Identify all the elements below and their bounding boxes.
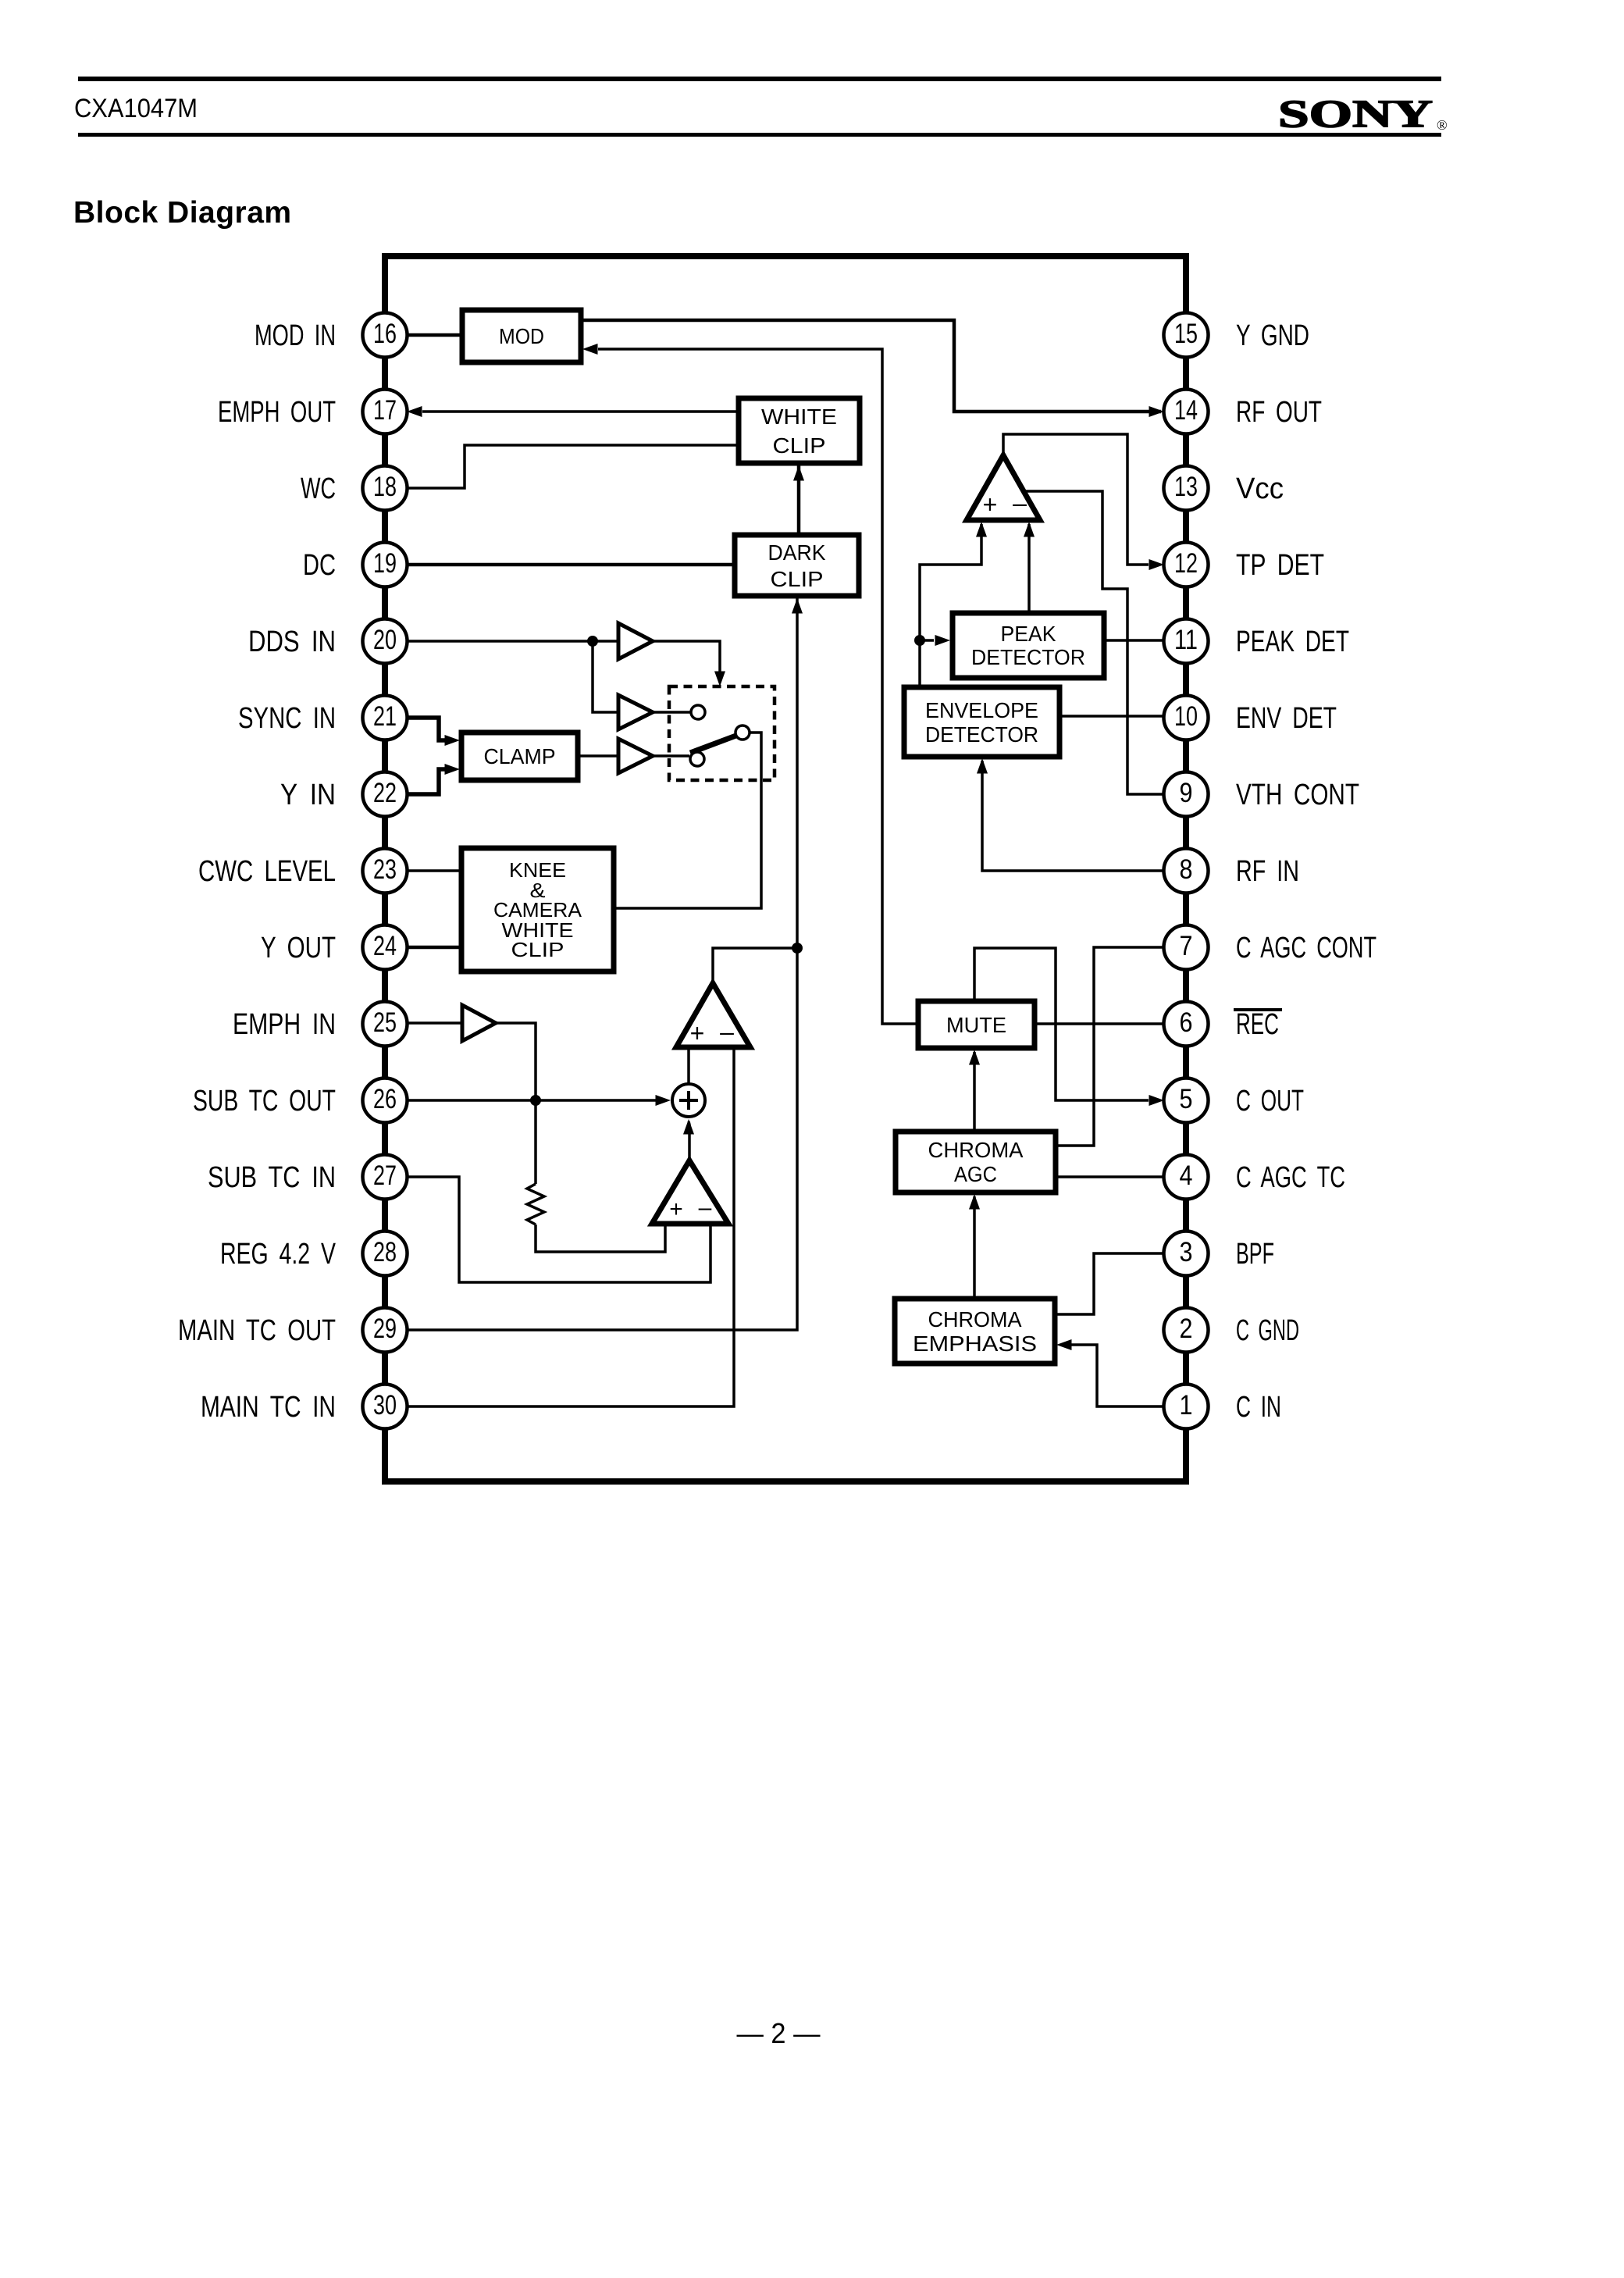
pin 22 Y IN	[280, 772, 408, 817]
svg-text:+: +	[669, 1196, 683, 1222]
block MUTE	[918, 1001, 1035, 1048]
buffer A3	[618, 739, 653, 773]
wire pin18 WC to WHITE CLIP	[405, 445, 739, 488]
svg-text:10: 10	[1174, 701, 1198, 732]
svg-text:DARK: DARK	[768, 540, 826, 565]
pin 13 Vcc	[1164, 466, 1284, 511]
op-amp U2	[652, 1160, 728, 1224]
pin 11 PEAK DET	[1164, 619, 1350, 664]
svg-text:CWC LEVEL: CWC LEVEL	[198, 855, 336, 888]
wire pin27 SUB TC IN to op-amp U2 minus input	[405, 1177, 710, 1282]
wire ENVELOPE DETECTOR to pin10 ENV DET	[1060, 715, 1164, 718]
wire buffer A3 output to contact	[653, 754, 689, 758]
svg-text:AGC: AGC	[954, 1162, 997, 1186]
switch box (dashed)	[669, 686, 775, 780]
svg-text:18: 18	[373, 472, 397, 502]
svg-text:29: 29	[373, 1314, 397, 1344]
pin 15 Y GND	[1164, 313, 1310, 358]
wire CHROMA EMPHASIS to CHROMA AGC	[969, 1194, 980, 1299]
pin 19 DC	[303, 543, 408, 587]
svg-text:1: 1	[1180, 1390, 1193, 1421]
svg-text:28: 28	[373, 1237, 397, 1267]
svg-text:3: 3	[1180, 1237, 1193, 1267]
pin 28 REG 4.2 V	[220, 1232, 408, 1276]
pin 25 EMPH IN	[233, 1002, 408, 1046]
svg-text:EMPH OUT: EMPH OUT	[218, 396, 336, 429]
svg-text:24: 24	[373, 931, 397, 961]
pin 24 Y OUT	[261, 925, 408, 970]
wire pin19 DC to DARK CLIP	[405, 563, 735, 567]
wire CHROMA EMPHASIS to pin3 BPF	[1055, 1253, 1164, 1314]
svg-text:+: +	[690, 1019, 705, 1047]
wire pin16 to MOD	[405, 333, 462, 337]
svg-text:–: –	[720, 1018, 734, 1046]
svg-text:CLIP: CLIP	[773, 433, 826, 458]
svg-text:RF OUT: RF OUT	[1236, 396, 1322, 429]
block CHROMA AGC	[896, 1132, 1056, 1192]
buffer A2	[618, 695, 653, 729]
svg-text:25: 25	[373, 1007, 397, 1038]
block PEAK DETECTOR	[953, 613, 1104, 678]
pin 7 C AGC CONT	[1164, 925, 1377, 970]
comparator U3	[967, 455, 1040, 520]
switch lever SW1	[690, 734, 740, 753]
wire op-amp U2 output to adder	[683, 1119, 694, 1160]
svg-text:MUTE: MUTE	[946, 1013, 1006, 1037]
svg-text:VTH CONT: VTH CONT	[1236, 779, 1359, 811]
wire resistor R1 to op-amp U2 plus input	[536, 1224, 665, 1252]
svg-text:CLIP: CLIP	[771, 567, 824, 591]
wire MOD output to pin14 RF OUT	[581, 320, 1164, 417]
pin 30 MAIN TC IN	[201, 1385, 408, 1429]
switch contact upper	[691, 705, 705, 719]
svg-text:8: 8	[1180, 854, 1193, 885]
wire DARK CLIP to WHITE CLIP	[793, 465, 804, 534]
wire pin20 DDS IN to buffer A1	[405, 640, 618, 643]
svg-text:Y IN: Y IN	[280, 779, 336, 811]
pin 9 VTH CONT	[1164, 772, 1360, 817]
svg-text:21: 21	[373, 701, 397, 732]
pin 23 CWC LEVEL	[198, 849, 408, 893]
svg-text:15: 15	[1174, 319, 1198, 349]
svg-text:ENV DET: ENV DET	[1236, 702, 1337, 735]
pin 3 BPF	[1164, 1232, 1275, 1276]
svg-text:MAIN TC IN: MAIN TC IN	[201, 1391, 336, 1424]
wire pin8 RF IN to ENVELOPE DETECTOR	[977, 758, 1166, 871]
svg-text:TP DET: TP DET	[1236, 549, 1324, 582]
svg-text:C AGC CONT: C AGC CONT	[1236, 932, 1376, 964]
wire pin23 CWC LEVEL to KNEE block	[405, 869, 461, 872]
svg-text:DETECTOR: DETECTOR	[925, 722, 1038, 747]
svg-text:12: 12	[1174, 548, 1198, 579]
svg-text:SONY: SONY	[1278, 91, 1433, 135]
svg-text:PEAK: PEAK	[1001, 622, 1056, 646]
svg-text:C IN: C IN	[1236, 1391, 1281, 1424]
svg-text:MAIN TC OUT: MAIN TC OUT	[178, 1314, 336, 1347]
junction dot pin20 branch	[587, 636, 598, 647]
switch contact lower	[690, 752, 704, 766]
wire pin22 Y IN to CLAMP	[405, 764, 460, 794]
wire junction to PEAK DETECTOR input	[920, 635, 950, 646]
svg-text:— 2 —: — 2 —	[737, 2017, 821, 2049]
svg-text:DC: DC	[303, 549, 336, 582]
wire buffer A4 output to resistor R1	[496, 1023, 536, 1184]
pin 5 C OUT	[1164, 1078, 1305, 1123]
svg-text:16: 16	[373, 319, 397, 349]
pin 21 SYNC IN	[238, 696, 408, 740]
wire pin30 MAIN TC IN to op-amp U1 minus input	[405, 1047, 734, 1406]
wire pin26 SUB TC OUT to adder	[405, 1095, 671, 1106]
pin 2 C GND	[1164, 1308, 1300, 1353]
svg-text:CHROMA: CHROMA	[928, 1307, 1022, 1332]
wire adder to op-amp U1 plus input	[689, 1047, 692, 1083]
svg-text:CXA1047M: CXA1047M	[74, 94, 198, 123]
header bottom rule	[78, 133, 1441, 137]
svg-text:2: 2	[1180, 1314, 1193, 1344]
block KNEE CAMERA WHITE CLIP	[461, 848, 614, 971]
svg-text:WC: WC	[301, 472, 336, 505]
wire MUTE output to MOD input	[582, 344, 918, 1024]
junction dot peak detector branch	[914, 635, 925, 646]
pin 12 TP DET	[1164, 543, 1325, 587]
svg-text:MOD IN: MOD IN	[255, 319, 336, 352]
svg-text:DETECTOR: DETECTOR	[971, 645, 1085, 669]
pin 29 MAIN TC OUT	[178, 1308, 408, 1353]
resistor R1	[527, 1184, 544, 1225]
wire MUTE to pin6 REC	[1035, 1022, 1166, 1025]
block ENVELOPE DETECTOR	[904, 687, 1060, 757]
svg-text:Y OUT: Y OUT	[261, 932, 336, 964]
adder node	[672, 1084, 705, 1117]
pin 6 REC	[1164, 1002, 1283, 1046]
svg-text:C GND: C GND	[1236, 1314, 1299, 1347]
wire pin7 C AGC CONT to CHROMA AGC	[1056, 947, 1166, 1146]
IC package outline	[382, 254, 1189, 1484]
buffer A4	[462, 1005, 496, 1041]
svg-text:–: –	[699, 1195, 712, 1221]
svg-text:26: 26	[373, 1084, 397, 1114]
pin 27 SUB TC IN	[208, 1155, 408, 1200]
wire PEAK DETECTOR to comparator U3 minus input	[1024, 522, 1035, 613]
svg-text:17: 17	[373, 395, 397, 426]
svg-text:PEAK DET: PEAK DET	[1236, 626, 1349, 658]
svg-text:RF IN: RF IN	[1236, 855, 1299, 888]
svg-text:SUB TC OUT: SUB TC OUT	[193, 1085, 336, 1118]
pin 4 C AGC TC	[1164, 1155, 1346, 1200]
svg-text:®: ®	[1437, 117, 1448, 133]
svg-text:C AGC TC: C AGC TC	[1236, 1161, 1345, 1194]
wire comparator U3 to pin9 VTH CONT	[1024, 491, 1164, 794]
svg-text:11: 11	[1174, 625, 1198, 655]
wire CHROMA AGC to pin4 C AGC TC	[1056, 1175, 1164, 1178]
svg-text:14: 14	[1174, 395, 1198, 426]
pin 10 ENV DET	[1164, 696, 1337, 740]
svg-text:–: –	[1013, 489, 1027, 517]
svg-text:CHROMA: CHROMA	[928, 1138, 1024, 1162]
junction dot opamp output on pin29 line	[792, 943, 803, 954]
switch pivot contact	[735, 725, 750, 740]
svg-text:EMPHASIS: EMPHASIS	[913, 1332, 1037, 1356]
buffer A1	[618, 623, 653, 659]
svg-text:23: 23	[373, 854, 397, 885]
header top rule	[78, 77, 1441, 81]
svg-text:REG 4.2 V: REG 4.2 V	[220, 1238, 336, 1271]
svg-text:MOD: MOD	[499, 324, 544, 348]
svg-text:7: 7	[1180, 931, 1193, 961]
wire op-amp U1 output to junction	[713, 948, 797, 982]
wire buffer A2 output to contact	[653, 711, 690, 714]
wire PEAK DETECTOR to pin11 PEAK DET	[1104, 639, 1164, 642]
svg-text:19: 19	[373, 548, 397, 579]
wire pin29 MAIN TC OUT to DARK CLIP	[405, 598, 803, 1330]
wire buffer A1 output to switch box	[653, 641, 725, 686]
svg-text:4: 4	[1180, 1160, 1193, 1191]
svg-text:Vcc: Vcc	[1236, 472, 1284, 505]
wire CLAMP to buffer A3	[578, 754, 618, 758]
pin 26 SUB TC OUT	[193, 1078, 408, 1123]
wire junction to buffer A2	[593, 641, 618, 712]
svg-text:C OUT: C OUT	[1236, 1085, 1304, 1118]
svg-text:5: 5	[1180, 1084, 1193, 1114]
svg-text:CLIP: CLIP	[511, 938, 564, 961]
wire MUTE to pin5 C OUT	[974, 948, 1164, 1106]
svg-text:20: 20	[373, 625, 397, 655]
svg-text:13: 13	[1174, 472, 1198, 502]
svg-text:Block Diagram: Block Diagram	[73, 196, 292, 230]
pin 1 C IN	[1164, 1385, 1282, 1429]
pin 20 DDS IN	[248, 619, 408, 664]
svg-text:WHITE: WHITE	[761, 405, 837, 429]
pin 8 RF IN	[1164, 849, 1300, 893]
wire pin25 EMPH IN to buffer A4	[405, 1021, 462, 1025]
svg-text:BPF: BPF	[1236, 1238, 1274, 1271]
svg-text:+: +	[983, 490, 998, 519]
block WHITE CLIP	[739, 398, 860, 463]
pin 16 MOD IN	[255, 313, 408, 358]
svg-text:CLAMP: CLAMP	[484, 744, 556, 768]
SONY logo	[1278, 91, 1448, 135]
block MOD	[462, 310, 581, 362]
block CHROMA EMPHASIS	[895, 1299, 1055, 1364]
svg-text:27: 27	[373, 1160, 397, 1191]
wire pin24 Y OUT to KNEE block	[405, 946, 461, 950]
wire switch pivot to KNEE block	[614, 733, 761, 908]
block DARK CLIP	[735, 535, 859, 596]
svg-text:ENVELOPE: ENVELOPE	[925, 698, 1038, 722]
svg-text:Y GND: Y GND	[1236, 319, 1309, 352]
svg-text:22: 22	[373, 778, 397, 808]
svg-text:30: 30	[373, 1390, 397, 1421]
wire pin21 SYNC IN to CLAMP	[405, 718, 460, 746]
pin 14 RF OUT	[1164, 390, 1323, 434]
pin 17 EMPH OUT	[218, 390, 408, 434]
wire WHITE CLIP to pin17 EMPH OUT	[407, 406, 739, 417]
svg-text:DDS IN: DDS IN	[248, 626, 336, 658]
svg-text:REC: REC	[1236, 1008, 1279, 1041]
wire pin1 C IN to CHROMA EMPHASIS	[1056, 1339, 1166, 1406]
svg-text:6: 6	[1180, 1007, 1193, 1038]
pin 18 WC	[301, 466, 408, 511]
wire envelope detector to comparator U3 plus input	[920, 522, 987, 686]
svg-text:SUB TC IN: SUB TC IN	[208, 1161, 336, 1194]
wire CHROMA AGC to MUTE	[969, 1050, 980, 1132]
svg-text:9: 9	[1180, 778, 1193, 808]
block CLAMP	[461, 733, 578, 780]
svg-text:EMPH IN: EMPH IN	[233, 1008, 336, 1041]
svg-text:SYNC IN: SYNC IN	[238, 702, 336, 735]
op-amp U1	[676, 983, 750, 1047]
junction dot buffer A4 line on pin26 wire	[530, 1095, 541, 1106]
wire comparator U3 output to pin12 TP DET	[1003, 434, 1164, 570]
